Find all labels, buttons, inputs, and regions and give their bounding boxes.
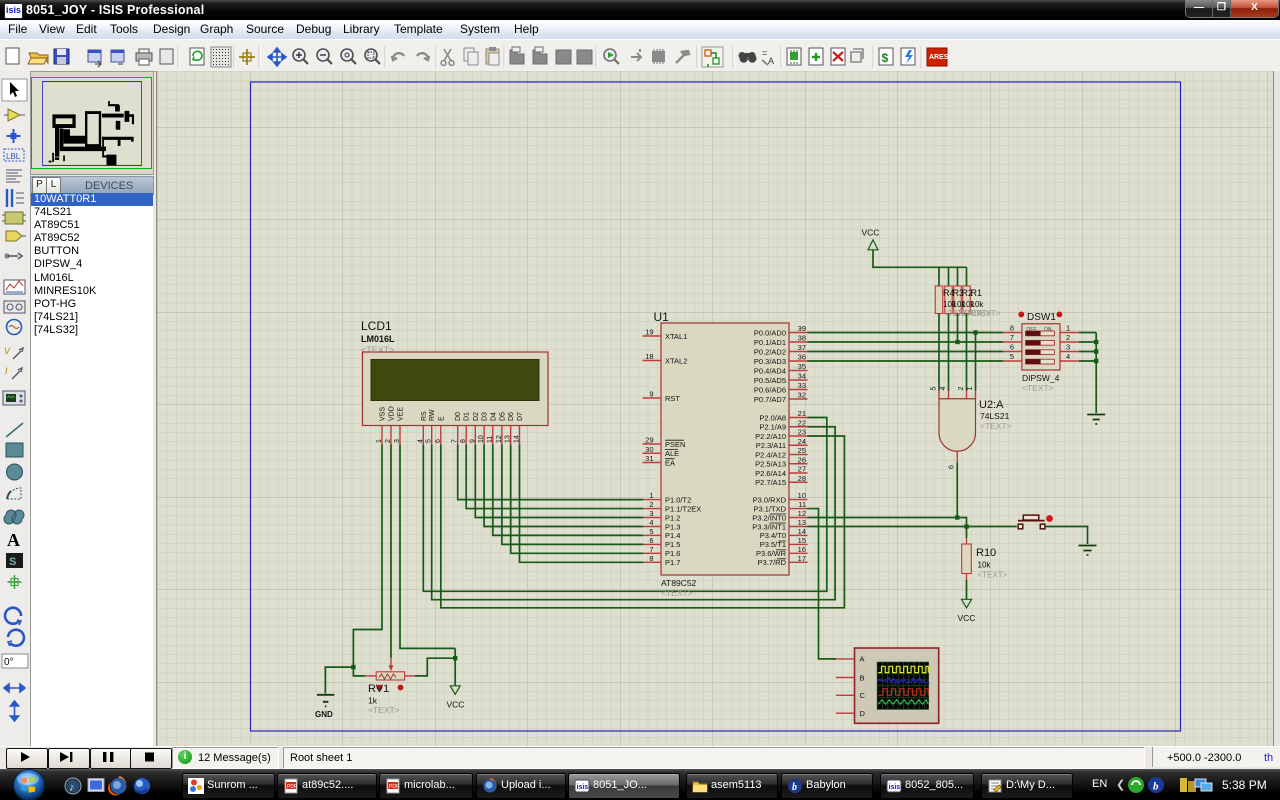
tb gotosheet <box>851 49 863 62</box>
tb undo <box>392 53 404 60</box>
lt 2d arc <box>7 488 21 499</box>
svg-text:8: 8 <box>1010 324 1014 333</box>
tb goto <box>631 49 641 61</box>
svg-text:R10: R10 <box>976 547 996 559</box>
svg-text:13: 13 <box>798 518 806 527</box>
svg-text:DIPSW_4: DIPSW_4 <box>1022 373 1060 383</box>
sim stop <box>145 753 154 762</box>
canvas schematic <box>157 71 1274 746</box>
taskbar start orb <box>2 769 54 800</box>
svg-text:C: C <box>860 691 866 700</box>
svg-text:VDD: VDD <box>389 406 396 421</box>
tb hammer <box>676 51 689 63</box>
pot RV1 right pin <box>405 675 415 677</box>
pot RV1 body <box>376 672 404 680</box>
lt mirror v <box>11 701 19 721</box>
svg-text:A: A <box>860 655 865 664</box>
tb delsheet <box>831 48 845 65</box>
svg-text:10: 10 <box>798 491 806 500</box>
sim pause <box>103 752 106 762</box>
svg-text:A: A <box>7 530 20 550</box>
pot RV1 left pin <box>365 675 376 677</box>
svg-text:R1: R1 <box>971 288 983 298</box>
svg-text:1k: 1k <box>368 696 378 706</box>
ground (DSW1) <box>1087 415 1105 425</box>
svg-text:P2.5/A13: P2.5/A13 <box>755 460 786 469</box>
tb save <box>54 49 69 64</box>
svg-text:29: 29 <box>645 436 653 445</box>
svg-text:37: 37 <box>798 343 806 352</box>
taskbar button Babylon <box>781 773 873 799</box>
taskbar button microlab... <box>379 773 473 799</box>
svg-text:9: 9 <box>469 439 476 443</box>
svg-text:2: 2 <box>1066 333 1070 342</box>
svg-text:P3.3/INT1: P3.3/INT1 <box>752 522 786 531</box>
svg-text:DSW1: DSW1 <box>1027 312 1056 323</box>
button actuator box <box>1023 515 1039 520</box>
svg-text:3: 3 <box>394 439 401 443</box>
wires D0-D7: LCD pins 7-14 to U1 P1.0-P1.7 <box>458 445 643 500</box>
tb chip <box>652 51 665 62</box>
svg-text:D5: D5 <box>499 412 506 421</box>
svg-text:4: 4 <box>649 518 653 527</box>
svg-text:LCD1: LCD1 <box>361 319 392 333</box>
svg-text:D1: D1 <box>464 412 471 421</box>
DSW1 right pins 1 2 3 4 <box>1060 332 1079 334</box>
svg-text:U2:A: U2:A <box>979 399 1004 411</box>
svg-text:P3.1/TXD: P3.1/TXD <box>753 504 786 513</box>
tb paste <box>486 49 499 64</box>
svg-text:P0.6/AD6: P0.6/AD6 <box>754 385 786 394</box>
U1 left pins P1.0-P1.7 <box>643 499 661 501</box>
lt 2d path <box>4 510 24 524</box>
svg-text:12: 12 <box>496 435 503 443</box>
lt component <box>8 109 20 121</box>
svg-text:<TEXT>: <TEXT> <box>978 571 1008 580</box>
gate U2:A output pin 6 <box>956 451 958 462</box>
wire VDD net: LCD pin2 down to RV1 wiper <box>390 445 392 658</box>
sim play <box>21 752 30 762</box>
svg-text:S: S <box>9 556 16 568</box>
sim step <box>60 752 69 762</box>
taskbar button Upload i... <box>476 773 566 799</box>
lt wirelabel <box>4 149 24 161</box>
lt bus <box>7 189 12 207</box>
tb bom <box>879 48 893 65</box>
svg-text:<TEXT>: <TEXT> <box>368 705 400 715</box>
lt mirror h <box>4 684 25 692</box>
tb block2 <box>533 50 547 64</box>
wire R10 to VCC (down) <box>966 580 968 599</box>
svg-text:11: 11 <box>798 500 806 509</box>
svg-text:19: 19 <box>645 328 653 337</box>
wire button to ground <box>1045 527 1088 545</box>
svg-text:P2.0/A8: P2.0/A8 <box>759 413 786 422</box>
svg-text:15: 15 <box>798 536 806 545</box>
svg-text:5: 5 <box>1010 352 1014 361</box>
taskbar quicklaunch icons <box>53 773 168 799</box>
LCD LCD1 body <box>363 352 549 426</box>
tb grid <box>211 47 231 67</box>
canvas background grid <box>157 71 1274 746</box>
tb redo <box>417 53 429 60</box>
svg-text:D6: D6 <box>508 412 515 421</box>
svg-text:E: E <box>438 416 445 421</box>
svg-text:9: 9 <box>649 390 653 399</box>
svg-text:P1.5: P1.5 <box>665 540 680 549</box>
tb erc <box>901 48 915 65</box>
LCD pin stubs <box>381 426 383 445</box>
svg-text:4: 4 <box>1066 352 1070 361</box>
svg-text:7: 7 <box>649 545 653 554</box>
svg-text:7: 7 <box>452 439 459 443</box>
svg-text:A: A <box>768 56 774 66</box>
tb printarea <box>160 49 173 64</box>
svg-text:14: 14 <box>514 435 521 443</box>
svg-text:18: 18 <box>645 352 653 361</box>
tb cut <box>444 49 451 61</box>
minimap wire bundles <box>37 127 77 156</box>
tb zoom-area <box>365 49 377 61</box>
svg-text:1: 1 <box>649 491 653 500</box>
wire VCC vertical (bottom left) <box>454 648 456 685</box>
svg-text:D7: D7 <box>517 412 524 421</box>
svg-text:5: 5 <box>649 527 653 536</box>
svg-text:P3.7/RD: P3.7/RD <box>758 558 787 567</box>
svg-text:XTAL2: XTAL2 <box>665 356 687 365</box>
lt selection (active) <box>2 79 27 101</box>
svg-text:ARES: ARES <box>929 54 949 61</box>
lt device pin <box>6 253 22 259</box>
svg-text:RS: RS <box>421 411 428 421</box>
svg-text:23: 23 <box>798 428 806 437</box>
tb find <box>739 52 756 59</box>
overview minimap <box>30 71 154 175</box>
svg-text:isis: isis <box>889 784 901 791</box>
svg-text:LBL: LBL <box>6 152 21 161</box>
svg-text:U1: U1 <box>654 310 670 324</box>
svg-text:b: b <box>1153 781 1159 793</box>
svg-text:D3: D3 <box>482 412 489 421</box>
junctions DSW1 ground net <box>1094 340 1098 344</box>
resistor R10 top pin <box>966 538 968 544</box>
tb block1 <box>510 50 524 64</box>
svg-text:16: 16 <box>798 545 806 554</box>
wires resistor tops <box>938 267 940 286</box>
lt script <box>6 170 22 182</box>
wire gate output down <box>956 463 958 518</box>
taskbar button D:\My D... <box>981 773 1073 799</box>
taskbar button 8052_805... <box>880 773 974 799</box>
tb zoom-all <box>341 49 353 61</box>
minimap gate <box>115 120 120 129</box>
svg-text:5: 5 <box>426 439 433 443</box>
svg-text:P0.0/AD0: P0.0/AD0 <box>754 328 786 337</box>
svg-text:B: B <box>860 673 865 682</box>
junction R10 vertical crossing P3.3 <box>964 524 968 528</box>
svg-text:P3.5/T1: P3.5/T1 <box>760 540 786 549</box>
svg-text:VCC: VCC <box>447 700 465 710</box>
svg-text:isis: isis <box>577 784 589 791</box>
svg-text:3: 3 <box>1066 343 1070 352</box>
svg-text:P2.1/A9: P2.1/A9 <box>759 423 786 432</box>
svg-text:33: 33 <box>798 381 806 390</box>
DSW1 left pins 8 7 6 5 <box>1003 332 1022 334</box>
svg-text:D0: D0 <box>455 412 462 421</box>
button contact bar <box>1018 520 1045 522</box>
wires DSW1 right to ground <box>1079 332 1096 334</box>
svg-text:P1.4: P1.4 <box>665 531 680 540</box>
svg-text:XTAL1: XTAL1 <box>665 332 687 341</box>
svg-text:13: 13 <box>505 435 512 443</box>
svg-text:VCC: VCC <box>958 613 976 623</box>
svg-text:26: 26 <box>798 455 806 464</box>
gate U2:A input pins 5 4 2 1 <box>938 391 940 399</box>
U1 left pins XTAL1 XTAL2 RST PSEN ALE EA <box>643 335 662 337</box>
svg-text:36: 36 <box>798 353 806 362</box>
svg-text:30: 30 <box>645 445 653 454</box>
menu bar <box>0 20 1280 40</box>
svg-text:D4: D4 <box>490 412 497 421</box>
wire GND branch <box>325 667 353 693</box>
ground (bottom left) <box>317 695 335 707</box>
scope pin C <box>836 694 855 696</box>
svg-text:24: 24 <box>798 437 806 446</box>
wire VSS net: LCD pin1 to RV1 left / GND <box>353 445 382 676</box>
svg-text:P0.3/AD3: P0.3/AD3 <box>754 357 786 366</box>
wire RS net: LCD pin4 to U1 P2.0 <box>423 418 827 592</box>
svg-text:2: 2 <box>958 387 965 391</box>
sheet border <box>251 82 1181 731</box>
wire P3.3 net (to button) <box>808 526 1017 528</box>
taskbar <box>0 769 1280 800</box>
svg-text:6: 6 <box>435 439 442 443</box>
lt 2d box <box>6 443 23 457</box>
minimap RV1 <box>54 157 58 160</box>
U1 right pins P3.0-P3.7 <box>789 499 808 501</box>
minimap R10 <box>117 137 120 146</box>
svg-text:<TEXT>: <TEXT> <box>971 309 1001 318</box>
lt 2d line <box>6 423 23 437</box>
lt rotate ccw <box>8 630 24 646</box>
svg-text:1: 1 <box>376 439 383 443</box>
scope trace C (red) <box>878 689 928 695</box>
svg-text:P3.2/INT0: P3.2/INT0 <box>752 513 786 522</box>
svg-text:34: 34 <box>798 372 806 381</box>
ground (right of button) <box>1079 546 1097 556</box>
minimap sheet border <box>42 81 141 165</box>
U1 right pins P2.0-P2.7 <box>789 417 808 419</box>
lt 2d marker <box>8 575 22 589</box>
svg-text:27: 27 <box>798 465 806 474</box>
svg-text:11: 11 <box>487 436 494 443</box>
svg-text:PDF: PDF <box>389 784 399 790</box>
svg-text:P2.7/A15: P2.7/A15 <box>755 478 786 487</box>
svg-text:P0.2/AD2: P0.2/AD2 <box>754 347 786 356</box>
svg-text:P3.4/T0: P3.4/T0 <box>760 531 786 540</box>
lt junction <box>7 129 21 143</box>
tb import <box>88 50 101 62</box>
svg-text:GND: GND <box>315 710 333 719</box>
tb newsheet <box>809 48 823 65</box>
wire P3.1 to scope A <box>808 509 837 659</box>
scope body <box>855 648 939 723</box>
tb block3 <box>556 50 571 64</box>
lt generator <box>7 320 22 335</box>
svg-text:P1.1/T2EX: P1.1/T2EX <box>665 504 701 513</box>
wire E net: LCD pin6 to U1 P2.2 <box>441 436 845 608</box>
RV1 origin markers <box>377 685 383 691</box>
svg-text:EA: EA <box>665 458 675 467</box>
svg-text:3: 3 <box>649 509 653 518</box>
DSW1 sliders <box>1026 331 1055 336</box>
taskbar button 8051_JO... <box>568 773 680 799</box>
wire RW net: LCD pin5 to U1 P2.1 <box>432 427 835 600</box>
taskbar button at89c52.... <box>277 773 377 799</box>
svg-text:<TEXT>: <TEXT> <box>980 421 1012 431</box>
junction VSS/GND <box>351 665 355 669</box>
DSW1 origin markers <box>1018 312 1024 318</box>
svg-text:21: 21 <box>798 409 806 418</box>
lt graph <box>4 280 25 294</box>
devices panel <box>30 176 154 195</box>
lt angle box <box>2 654 28 668</box>
button contacts <box>1018 524 1023 529</box>
lt terminal <box>6 231 22 241</box>
svg-text:PDF: PDF <box>287 784 297 790</box>
lt subcircuit <box>5 212 23 224</box>
tb ares <box>927 48 947 66</box>
pot RV1 wiper <box>390 658 392 666</box>
minimap scope <box>106 154 116 165</box>
resistor R10 body <box>962 544 972 574</box>
minimap GND <box>48 160 51 162</box>
svg-text:74LS21: 74LS21 <box>980 411 1010 421</box>
svg-text:AT89C52: AT89C52 <box>661 578 697 588</box>
tb refresh <box>190 48 204 65</box>
svg-text:10k: 10k <box>978 561 992 570</box>
title bar <box>0 0 1280 20</box>
svg-text:P1.2: P1.2 <box>665 513 680 522</box>
wire VEE net: LCD pin3 to VCC vertical <box>400 445 455 649</box>
svg-text:6: 6 <box>649 536 653 545</box>
tb block4 <box>577 50 592 64</box>
tb instant-edit <box>604 49 616 61</box>
svg-text:7: 7 <box>1010 333 1014 342</box>
junction gate output on P3.2 net <box>955 515 959 519</box>
U1 right pins P0.0-P0.7 <box>789 332 808 334</box>
tb open <box>29 53 48 63</box>
tb print <box>136 53 152 61</box>
svg-text:32: 32 <box>798 391 806 400</box>
tb zoom-in <box>293 49 305 61</box>
scope pin A <box>836 658 855 660</box>
wire RV1 right to VCC net <box>415 658 455 676</box>
svg-text:8: 8 <box>460 439 467 443</box>
resistors R4 R3 R2 R1 (pack) <box>935 286 943 314</box>
lt tape <box>4 301 25 313</box>
svg-text:RST: RST <box>665 394 680 403</box>
scope trace D (green) <box>878 700 928 705</box>
wire P3.2 net (to R10 corner) <box>808 518 967 539</box>
tb autoroute <box>702 47 723 67</box>
svg-text:5: 5 <box>931 387 938 391</box>
svg-text:V: V <box>4 346 11 356</box>
tb explorer <box>787 48 801 65</box>
svg-text:4: 4 <box>940 387 947 391</box>
taskbar clock <box>1222 778 1267 792</box>
power VCC (bottom, down arrow) <box>450 686 460 695</box>
junction R3/P0.1 <box>955 340 959 344</box>
svg-text:31: 31 <box>645 454 653 463</box>
svg-text:0°: 0° <box>4 657 14 668</box>
LCD LCD1 screen <box>371 360 539 401</box>
svg-text:38: 38 <box>798 334 806 343</box>
svg-text:14: 14 <box>798 527 806 536</box>
taskbar button asem5113 <box>686 773 778 799</box>
tb export <box>111 50 124 62</box>
scope trace A (yellow) <box>878 666 928 672</box>
minimap U1 block <box>86 112 100 145</box>
svg-text:<TEXT>: <TEXT> <box>661 588 693 598</box>
svg-text:P1.7: P1.7 <box>665 558 680 567</box>
svg-text:12: 12 <box>798 509 806 518</box>
lt rotate cw <box>5 608 21 624</box>
svg-text:=: = <box>762 48 767 58</box>
svg-text:22: 22 <box>798 418 806 427</box>
svg-text:P1.3: P1.3 <box>665 522 680 531</box>
wires P0.0-P0.3 to DSW1 <box>808 332 1004 334</box>
svg-text:P2.3/A11: P2.3/A11 <box>756 441 786 450</box>
svg-text:VCC: VCC <box>862 228 880 238</box>
svg-text:25: 25 <box>798 446 806 455</box>
lt 2d circle <box>7 464 23 480</box>
svg-text:ALE: ALE <box>665 449 679 458</box>
taskbar button Sunrom ... <box>182 773 275 799</box>
junction RV1right/VCC <box>453 656 457 660</box>
svg-text:RV1: RV1 <box>368 683 389 695</box>
svg-text:10: 10 <box>478 435 485 443</box>
minimap resistor pack <box>115 104 120 111</box>
svg-text:4: 4 <box>417 439 424 443</box>
gate U2:A body (4-input AND, rotated) <box>939 399 976 451</box>
taskbar tray <box>1092 778 1107 790</box>
tb origin <box>239 49 255 65</box>
svg-text:10k: 10k <box>971 300 985 309</box>
svg-text:P0.7/AD7: P0.7/AD7 <box>754 395 786 404</box>
tb zoom-out <box>317 49 329 61</box>
minimap DSW1 <box>124 110 129 121</box>
lt instruments <box>3 391 25 405</box>
svg-text:P1.6: P1.6 <box>665 549 680 558</box>
svg-text:35: 35 <box>798 362 806 371</box>
svg-text:28: 28 <box>798 474 806 483</box>
junction pin1/P0.0 <box>973 330 977 334</box>
svg-text:6: 6 <box>1010 343 1014 352</box>
svg-text:6: 6 <box>949 465 956 469</box>
chip U1 body <box>661 323 789 575</box>
wire VCC feed to resistor pack <box>873 250 967 267</box>
lt 2d symbol <box>6 553 23 568</box>
svg-text:39: 39 <box>798 324 806 333</box>
svg-text:P2.2/A10: P2.2/A10 <box>755 432 786 441</box>
svg-text:♪: ♪ <box>69 782 75 794</box>
bottom bars <box>0 746 1280 770</box>
svg-text:P2.6/A14: P2.6/A14 <box>755 469 786 478</box>
power VCC (top) symbol <box>868 240 878 250</box>
power VCC (down arrow, right) <box>961 599 971 608</box>
wires resistor bottoms to gate / bus <box>938 314 940 391</box>
